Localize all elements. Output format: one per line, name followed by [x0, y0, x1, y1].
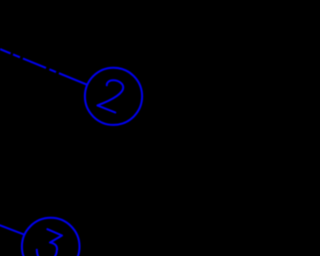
- label 2: [97, 80, 123, 112]
- label 3: [37, 229, 62, 256]
- node 2 circle: [85, 68, 142, 125]
- node 3 circle: [22, 218, 80, 256]
- wire: edge from off-canvas node to node 3: [0, 225, 24, 234]
- wire: dashed edge from off-canvas node to node 2: [0, 49, 87, 85]
